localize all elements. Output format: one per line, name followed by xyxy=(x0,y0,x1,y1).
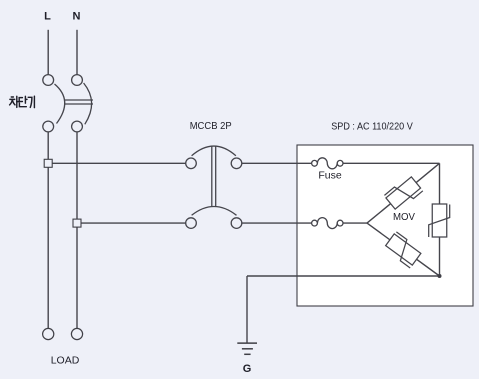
MCCB blade arc top pole xyxy=(192,146,236,156)
terminal circle N bottom xyxy=(72,121,83,132)
breaker blade arc L pole xyxy=(55,84,65,124)
wire row2 fuse2 to junction xyxy=(343,222,367,224)
svg-text:MCCB 2P: MCCB 2P xyxy=(190,120,232,132)
SPD enclosure box xyxy=(297,145,473,306)
MCCB blade arc bottom pole xyxy=(192,207,237,216)
wire right vertical side of triangle xyxy=(439,163,441,276)
svg-text:N: N xyxy=(73,11,81,23)
MCCB tie bar xyxy=(211,146,213,206)
wire N vertical top xyxy=(76,30,78,75)
terminal circle L top xyxy=(43,75,54,86)
svg-text:SPD : AC 110/220 V: SPD : AC 110/220 V xyxy=(331,121,413,133)
varistor MOV upper diagonal xyxy=(384,175,423,212)
terminal circle N top xyxy=(72,75,83,86)
wire ground horizontal xyxy=(247,275,440,277)
LOAD terminal circle N xyxy=(71,328,82,339)
MCCB terminal circle bottom-right xyxy=(231,218,242,229)
LOAD terminal circle L xyxy=(43,328,54,339)
MCCB 2P breaker xyxy=(186,146,242,228)
junction tap square on N wire xyxy=(73,219,81,227)
circuit breaker CB (차단기) xyxy=(43,75,93,132)
svg-text:MOV: MOV xyxy=(393,211,415,223)
breaker tie bar xyxy=(65,99,94,101)
svg-text:LOAD: LOAD xyxy=(51,355,80,367)
breaker blade arc N pole xyxy=(84,83,92,124)
junction dot at triangle bottom vertex xyxy=(438,274,442,278)
fuse F2 (row2) xyxy=(312,218,343,229)
wire lower diagonal junction to bottom vertex xyxy=(367,223,440,276)
svg-text:G: G xyxy=(243,363,252,375)
svg-text:L: L xyxy=(44,11,51,23)
wire row1 fuse1 to triangle top vertex xyxy=(343,162,440,164)
wire row2 from N-tap to MCCB xyxy=(81,222,186,224)
wire ground vertical xyxy=(246,276,248,343)
wire row1 MCCB to fuse1 xyxy=(242,162,312,164)
MCCB terminal circle top-left xyxy=(186,158,197,169)
MCCB terminal circle top-right xyxy=(231,158,242,169)
ground G symbol xyxy=(237,343,257,354)
label 차단기 (hand-drawn hangul strokes) xyxy=(10,96,35,107)
cha xyxy=(11,96,13,98)
wire row1 from L-tap to MCCB xyxy=(52,162,185,164)
gi xyxy=(28,97,32,107)
fuse F1 (row1) xyxy=(312,158,343,169)
varistor MOV lower diagonal xyxy=(384,232,423,268)
wire upper diagonal junction to top vertex xyxy=(367,163,440,223)
wire row2 MCCB to fuse2 xyxy=(242,222,312,224)
MCCB terminal circle bottom-left xyxy=(186,218,197,229)
wire N vertical lower xyxy=(76,132,78,328)
junction tap square on L wire xyxy=(44,159,52,167)
wire L vertical top xyxy=(47,30,49,75)
wire L vertical lower xyxy=(47,132,49,328)
svg-text:Fuse: Fuse xyxy=(318,170,342,182)
dan xyxy=(19,98,22,102)
varistor MOV right vertical xyxy=(429,204,450,237)
terminal circle L bottom xyxy=(43,121,54,132)
